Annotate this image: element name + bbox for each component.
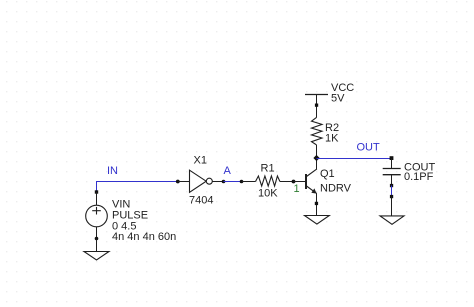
junction at VIN top pin — [95, 190, 98, 193]
wire junction to ground — [391, 197, 393, 216]
VCC power symbol stub — [316, 95, 318, 118]
resistor R1 left pin — [242, 181, 256, 183]
junction at inverter output — [222, 180, 226, 184]
voltage source V1 bottom pin — [96, 227, 98, 239]
junction below capacitor — [390, 184, 393, 187]
svg-text:IN: IN — [107, 165, 118, 177]
wire source to ground — [96, 239, 98, 252]
ground symbol (under VIN) — [84, 252, 109, 260]
svg-text:7404: 7404 — [189, 194, 213, 206]
inverter X1 input pin — [178, 181, 190, 183]
svg-text:X1: X1 — [194, 155, 207, 167]
svg-text:4n 4n 4n 60n: 4n 4n 4n 60n — [112, 231, 176, 243]
svg-text:Q1: Q1 — [320, 168, 335, 180]
svg-text:10K: 10K — [258, 187, 278, 199]
wire OUT net — [317, 158, 392, 160]
svg-text:5V: 5V — [331, 93, 345, 105]
resistor R1 zigzag — [256, 176, 280, 186]
transistor Q1 emitter lead — [316, 193, 318, 216]
inverter X1 triangle — [190, 170, 207, 192]
inverter X1 output bubble — [206, 178, 212, 184]
ground symbol (emitter) — [305, 216, 330, 225]
plus sign inside source — [92, 210, 101, 212]
junction above ground — [390, 195, 393, 198]
inverter X1 output pin — [212, 181, 223, 183]
voltage source V1 (VIN) top pin — [96, 192, 98, 205]
svg-text:A: A — [224, 165, 232, 177]
ground symbol (capacitor) — [380, 216, 404, 224]
capacitor COUT top plate — [383, 168, 401, 170]
junction on emitter lead — [315, 202, 318, 205]
junction collector node (diamond) — [313, 155, 319, 161]
svg-text:1K: 1K — [325, 132, 339, 144]
junction on VCC stub — [315, 104, 318, 107]
wire IN net (corner above VIN to inverter input) — [97, 182, 178, 193]
junction at Q1 base wire — [292, 180, 296, 184]
svg-text:1: 1 — [294, 183, 300, 195]
svg-text:NDRV: NDRV — [320, 183, 352, 195]
resistor R2 zigzag — [312, 117, 323, 144]
transistor Q1 base pin — [294, 181, 307, 183]
wire net A — [224, 181, 242, 183]
transistor Q1 base bar — [305, 174, 307, 189]
svg-text:0.1PF: 0.1PF — [404, 171, 434, 183]
junction at inverter input — [176, 180, 180, 184]
voltage source V1 (VIN) circle — [86, 205, 108, 227]
svg-text:OUT: OUT — [357, 141, 381, 153]
junction below source — [95, 237, 99, 241]
capacitor COUT bottom pin — [391, 175, 393, 186]
svg-text:R1: R1 — [261, 162, 275, 174]
capacitor COUT bottom plate — [383, 174, 401, 176]
VCC power symbol bar — [305, 94, 328, 96]
junction at capacitor top — [390, 156, 394, 160]
junction at R1 left — [240, 180, 244, 184]
resistor R2 bottom pin — [316, 145, 318, 158]
capacitor COUT top pin — [391, 159, 393, 169]
transistor Q1 emitter arrowhead — [311, 188, 316, 193]
transistor Q1 emitter diagonal — [307, 186, 317, 193]
transistor Q1 collector diagonal — [307, 169, 317, 177]
resistor R1 right pin — [280, 181, 294, 183]
transistor Q1 collector lead — [316, 158, 318, 169]
wire capacitor to ground — [391, 186, 393, 197]
